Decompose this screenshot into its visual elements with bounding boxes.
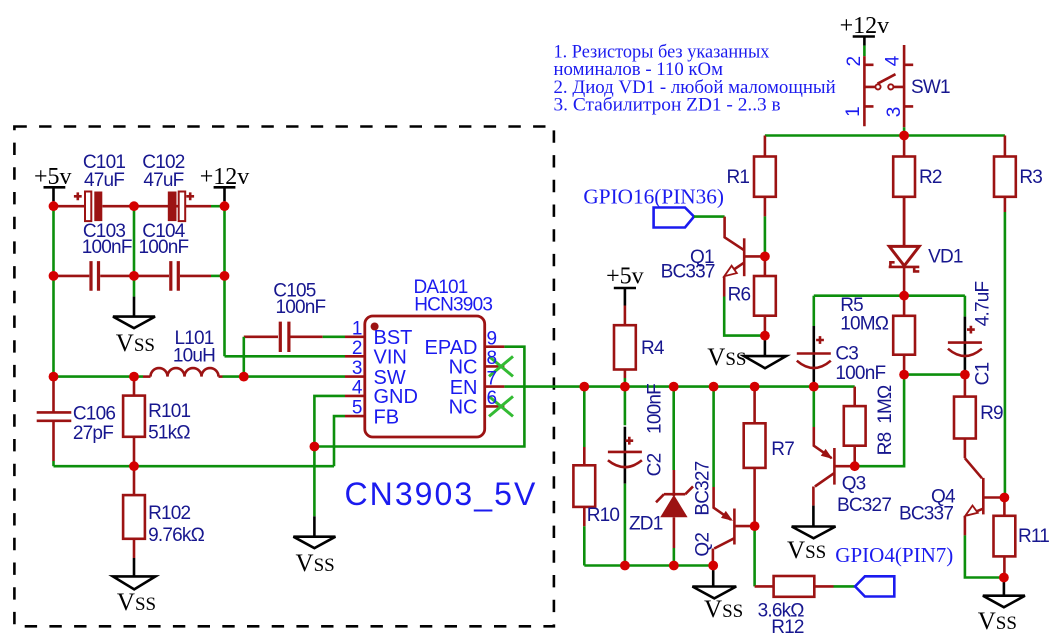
svg-text:R10: R10 [587,505,620,526]
svg-text:VSS: VSS [116,330,155,357]
svg-text:100nF: 100nF [82,237,132,258]
svg-text:ZD1: ZD1 [629,514,663,535]
svg-text:VSS: VSS [296,550,335,577]
svg-text:VSS: VSS [704,596,743,623]
svg-text:GPIO4(PIN7): GPIO4(PIN7) [835,543,953,567]
svg-text:8: 8 [487,348,498,369]
svg-text:VIN: VIN [374,347,407,369]
svg-text:R101: R101 [148,401,190,422]
svg-text:R7: R7 [771,439,794,460]
svg-text:R102: R102 [148,503,190,524]
svg-text:100nF: 100nF [275,297,325,318]
svg-text:1: 1 [352,318,363,339]
svg-text:7: 7 [487,368,498,389]
svg-text:R11: R11 [1018,526,1049,547]
svg-text:R6: R6 [728,284,751,305]
svg-text:1MΩ: 1MΩ [875,385,896,424]
svg-text:4.7uF: 4.7uF [973,282,994,327]
svg-text:+12v: +12v [200,164,250,190]
svg-text:100nF: 100nF [138,237,188,258]
svg-text:NC: NC [449,397,478,419]
svg-text:+12v: +12v [840,13,890,39]
svg-text:51kΩ: 51kΩ [148,423,190,444]
svg-text:2: 2 [352,338,363,359]
svg-text:R3: R3 [1019,167,1042,188]
svg-text:FB: FB [374,406,400,428]
svg-text:C106: C106 [73,404,115,425]
svg-text:3. Стабилитрон ZD1 - 2..3 в: 3. Стабилитрон ZD1 - 2..3 в [554,96,781,116]
svg-text:HCN3903: HCN3903 [414,295,492,316]
svg-text:47uF: 47uF [84,170,124,191]
svg-text:BC327: BC327 [837,495,891,516]
svg-text:27pF: 27pF [73,423,113,444]
svg-text:4: 4 [352,377,363,398]
svg-text:C3: C3 [835,343,858,364]
svg-text:1: 1 [843,106,864,117]
svg-text:3: 3 [884,107,905,118]
svg-text:C2: C2 [645,453,666,476]
svg-text:Q2: Q2 [693,533,714,557]
svg-text:47uF: 47uF [143,170,183,191]
svg-text:R4: R4 [641,338,665,359]
svg-text:10uH: 10uH [173,346,215,367]
svg-text:C1: C1 [973,362,994,385]
svg-text:6: 6 [487,388,498,409]
svg-text:R1: R1 [726,167,749,188]
svg-text:BC327: BC327 [693,461,714,515]
svg-text:2: 2 [844,56,865,67]
svg-text:VSS: VSS [707,344,746,371]
svg-text:100nF: 100nF [645,384,666,434]
svg-text:VSS: VSS [978,608,1017,635]
svg-text:CN3903_5V: CN3903_5V [345,476,536,512]
svg-text:SW1: SW1 [911,77,950,98]
svg-text:9: 9 [487,329,498,350]
svg-text:R8: R8 [875,432,896,455]
svg-text:9.76kΩ: 9.76kΩ [148,525,204,546]
svg-text:NC: NC [449,357,478,379]
svg-text:+5v: +5v [34,164,72,190]
svg-text:+5v: +5v [606,264,644,290]
svg-text:R12: R12 [771,617,804,638]
svg-text:Q3: Q3 [842,474,866,495]
svg-text:5: 5 [352,398,363,419]
svg-text:VSS: VSS [117,589,156,616]
svg-text:EN: EN [450,377,478,399]
svg-text:BC337: BC337 [661,262,715,283]
svg-text:EPAD: EPAD [425,337,478,359]
svg-text:3: 3 [352,358,363,379]
svg-text:R2: R2 [919,167,942,188]
svg-text:GND: GND [374,386,418,408]
svg-text:100nF: 100nF [835,363,885,384]
svg-text:R9: R9 [980,403,1003,424]
svg-text:BC337: BC337 [899,504,953,525]
svg-text:GPIO16(PIN36): GPIO16(PIN36) [583,185,724,209]
svg-text:VD1: VD1 [928,247,963,268]
svg-text:10MΩ: 10MΩ [840,314,889,335]
svg-text:VSS: VSS [787,537,826,564]
svg-text:4: 4 [883,55,904,66]
